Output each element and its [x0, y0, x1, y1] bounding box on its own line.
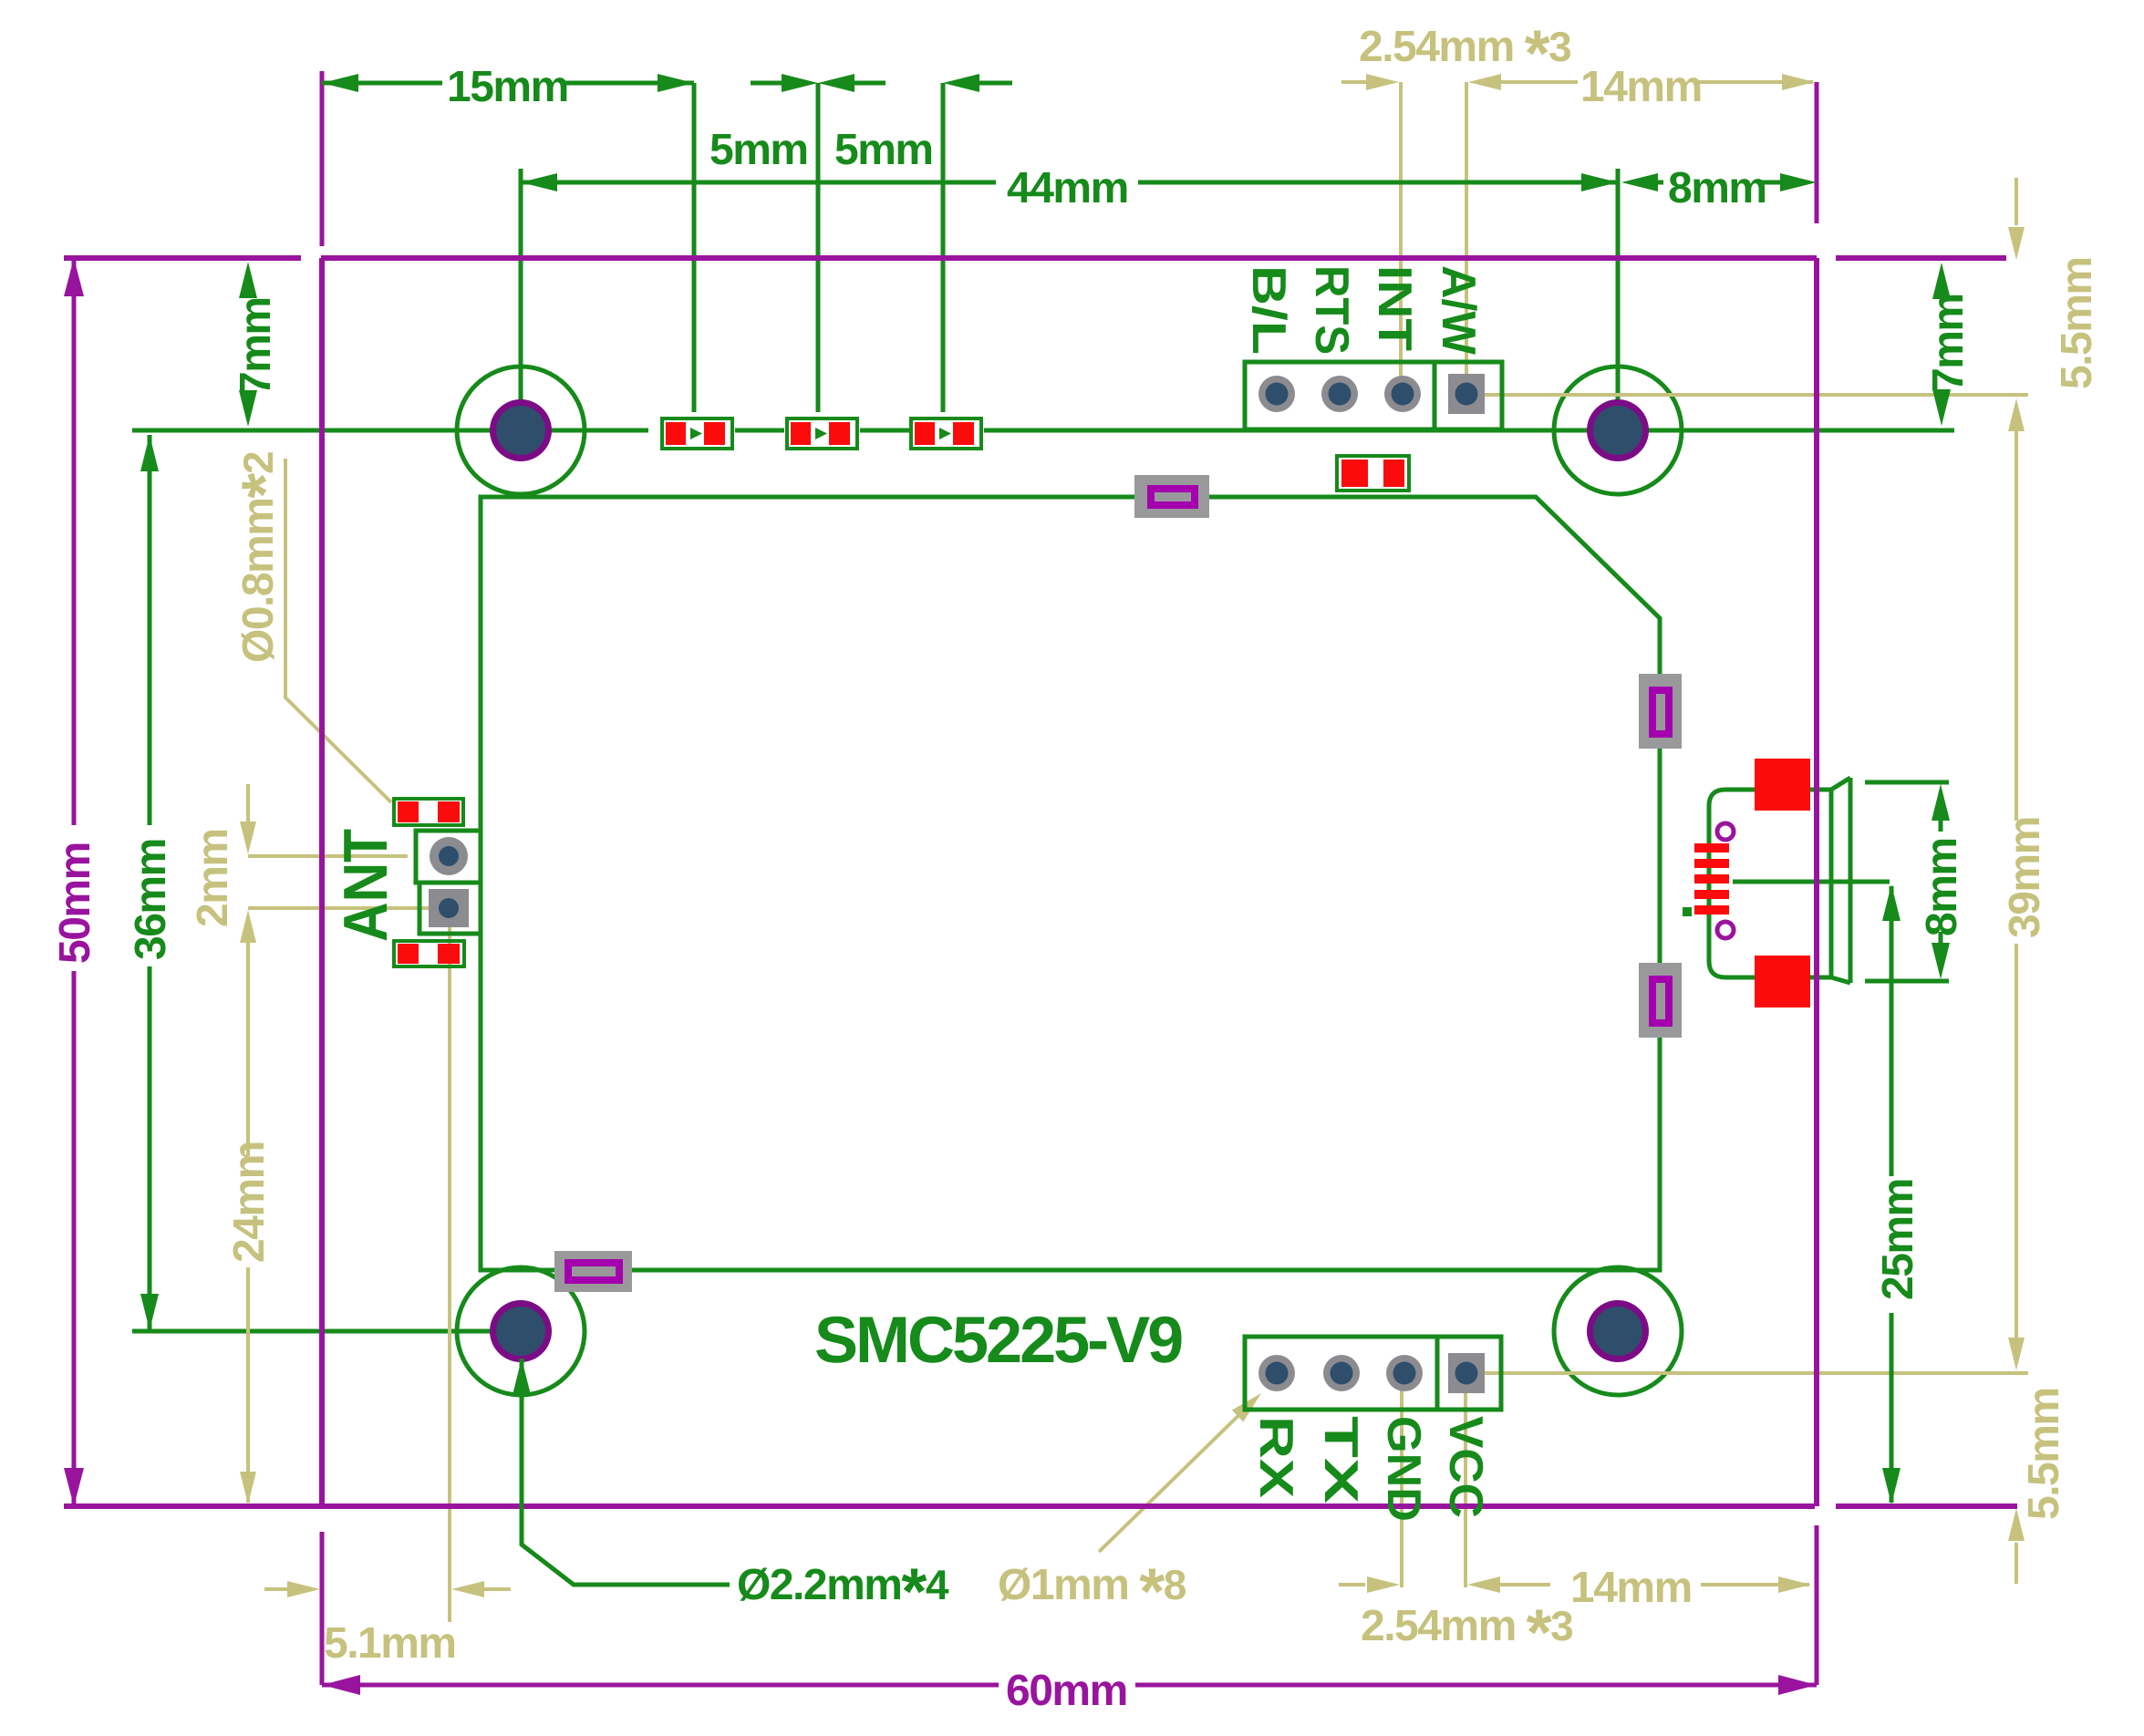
khaki dimension 39mm line — [2015, 430, 2018, 821]
USB pin1 mark — [1683, 907, 1692, 916]
svg-text:5mm: 5mm — [709, 126, 808, 174]
dimension 15mm — [322, 81, 442, 86]
USB flange — [1849, 778, 1853, 983]
extension line LED2 vertical — [816, 83, 821, 412]
ANT pad group top — [394, 799, 463, 825]
jumper pad below header — [1337, 456, 1409, 491]
LED D2 outline — [787, 418, 857, 449]
SMD component right edge upper — [1639, 674, 1682, 749]
board edge right — [1814, 258, 1819, 1506]
svg-text:8mm: 8mm — [1918, 838, 1966, 936]
khaki dimension 5.5mm bottom arrow — [2008, 1508, 2025, 1541]
svg-text:VCC: VCC — [1439, 1416, 1492, 1518]
svg-text:Ø1mm *8: Ø1mm *8 — [998, 1555, 1186, 1628]
bottom header pad VCC square — [1448, 1353, 1485, 1393]
svg-text:14mm: 14mm — [1580, 63, 1702, 111]
board edge left bottom extension — [320, 1532, 325, 1685]
mounting hole ring top-left — [457, 367, 585, 494]
svg-text:RTS: RTS — [1305, 265, 1358, 355]
USB pin bars — [1694, 843, 1729, 914]
khaki dimension 14mm top line — [1501, 80, 1578, 84]
board edge right top extension — [1815, 82, 1819, 223]
svg-text:TX: TX — [1314, 1416, 1367, 1503]
svg-text:SMC5225-V9: SMC5225-V9 — [814, 1304, 1182, 1377]
dimension 8mm top — [1621, 173, 1658, 191]
khaki vertical through ANT pin2 down — [448, 908, 451, 1622]
top header pad B/L — [1258, 376, 1295, 412]
top header outline — [1245, 362, 1502, 429]
mounting hole ring bottom-right — [1554, 1267, 1682, 1395]
dimension 7mm right — [1932, 263, 1951, 299]
extension line right hole vertical — [1616, 169, 1621, 430]
khaki dimension 2mm arrows — [240, 821, 256, 854]
khaki A/W extension vertical — [1465, 82, 1468, 392]
board edge left — [319, 258, 325, 1506]
hole centerline top (through both top holes) — [132, 429, 1954, 433]
LED D1 outline — [662, 418, 732, 449]
svg-text:7mm: 7mm — [1924, 294, 1973, 392]
khaki VCC pin horizontal line — [1466, 1371, 2028, 1375]
USB hole top — [1717, 823, 1734, 840]
board edge right bottom extension — [1815, 1525, 1819, 1685]
svg-text:5mm: 5mm — [834, 126, 933, 174]
svg-text:Ø0.8mm*2: Ø0.8mm*2 — [229, 452, 302, 663]
svg-text:GND: GND — [1377, 1416, 1430, 1522]
svg-text:50mm: 50mm — [51, 842, 99, 964]
top header pad INT — [1384, 376, 1421, 412]
khaki dimension 2.54mm bottom arrows — [1339, 1583, 1365, 1586]
SMD component bottom edge — [554, 1251, 632, 1292]
hole centerline bottom-left — [132, 1329, 524, 1334]
svg-text:5.1mm: 5.1mm — [324, 1619, 456, 1668]
khaki dimension 5.5mm top arrows — [2015, 178, 2018, 225]
svg-text:INT: INT — [1368, 265, 1421, 351]
svg-text:7mm: 7mm — [232, 297, 280, 396]
dimension 60mm — [322, 1683, 999, 1688]
dimension 36mm — [148, 435, 152, 825]
mounting hole ring top-right — [1554, 367, 1682, 494]
hole fill top-right — [1587, 399, 1649, 461]
bottom header pad RX — [1258, 1355, 1295, 1391]
svg-text:Ø2.2mm*4: Ø2.2mm*4 — [737, 1555, 949, 1628]
extension line left hole vertical — [519, 169, 523, 430]
board edge bottom — [64, 1503, 1815, 1509]
svg-text:25mm: 25mm — [1874, 1179, 1922, 1300]
svg-text:44mm: 44mm — [1007, 164, 1128, 212]
svg-text:60mm: 60mm — [1006, 1667, 1127, 1715]
svg-text:39mm: 39mm — [2001, 817, 2049, 938]
USB centerline — [1733, 880, 1890, 884]
svg-text:8mm: 8mm — [1668, 164, 1766, 212]
board edge left top extension — [320, 71, 325, 246]
khaki dimension 2.54mm top arrows — [1341, 80, 1366, 84]
svg-text:2.54mm *3: 2.54mm *3 — [1361, 1596, 1572, 1669]
LED D2 pads — [791, 422, 811, 445]
SMD component right edge lower — [1639, 963, 1682, 1038]
ANT pin1 round pad — [430, 837, 468, 875]
bottom header outline — [1245, 1337, 1501, 1410]
LED D3 outline — [911, 418, 981, 449]
hole fill top-left — [490, 399, 552, 461]
svg-text:5.5mm: 5.5mm — [2053, 257, 2101, 389]
dimension 8mm usb — [1865, 780, 1949, 785]
svg-text:24mm: 24mm — [225, 1142, 274, 1263]
ANT connector boxes — [416, 831, 481, 883]
top header pad A/W square — [1448, 374, 1485, 414]
bottom header pad GND — [1386, 1355, 1423, 1391]
khaki dimension 5.1mm arrows — [264, 1587, 289, 1591]
svg-text:36mm: 36mm — [127, 839, 175, 960]
module outline (inner green region) — [481, 497, 1660, 1270]
USB hole bottom — [1717, 922, 1734, 938]
svg-text:5.5mm: 5.5mm — [2020, 1388, 2068, 1520]
khaki INT extension vertical — [1399, 82, 1403, 392]
khaki dimension 24mm line — [246, 943, 250, 1156]
ANT pin2 square pad — [429, 889, 469, 927]
LED D1 pads — [666, 422, 686, 445]
khaki GND extension vertical bottom — [1400, 1373, 1403, 1587]
USB solder squares — [1755, 759, 1810, 811]
leader diameter 2.2mm — [522, 1359, 730, 1585]
dimension 25mm — [1890, 886, 1894, 1176]
svg-text:A/W: A/W — [1432, 265, 1485, 356]
bottom header pad TX — [1323, 1355, 1360, 1391]
extension line LED1 vertical — [692, 83, 697, 412]
svg-text:15mm: 15mm — [447, 63, 568, 111]
svg-text:RX: RX — [1249, 1416, 1302, 1498]
dimension 7mm left — [239, 262, 257, 298]
ANT pad group bottom — [394, 941, 464, 966]
khaki leader diameter 0.8mm — [285, 459, 391, 802]
khaki ANT pin2 line — [248, 906, 429, 910]
board edge top — [64, 255, 301, 261]
SMD component top edge — [1134, 475, 1209, 518]
mounting hole ring bottom-left — [457, 1267, 585, 1395]
hole fill bottom-left — [490, 1300, 552, 1362]
USB connector body — [1709, 790, 1831, 977]
dimension 44mm — [521, 181, 996, 185]
LED D3 pads — [915, 422, 935, 445]
top header pad RTS — [1321, 376, 1358, 412]
khaki VCC extension vertical bottom — [1464, 1373, 1467, 1587]
svg-text:14mm: 14mm — [1570, 1564, 1692, 1612]
svg-text:B/L: B/L — [1242, 265, 1295, 355]
extension line LED3 vertical — [941, 83, 946, 412]
hole fill bottom-right — [1587, 1300, 1649, 1362]
svg-text:ANT: ANT — [331, 829, 400, 942]
khaki leader diameter 1mm — [1099, 1400, 1255, 1552]
khaki ANT pin1 line — [248, 854, 408, 858]
svg-text:2.54mm *3: 2.54mm *3 — [1359, 17, 1570, 90]
svg-text:2mm: 2mm — [189, 829, 237, 927]
khaki dimension 14mm bottom line — [1500, 1583, 1550, 1586]
khaki A/W pin horizontal line — [1468, 393, 2028, 397]
dimension 50mm — [72, 258, 77, 825]
dimension 5mm arrows — [751, 81, 783, 86]
